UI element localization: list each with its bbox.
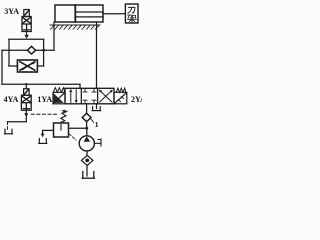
svg-text:1YA: 1YA <box>37 95 52 104</box>
svg-text:2YA: 2YA <box>131 95 142 104</box>
svg-text:4YA: 4YA <box>4 95 19 104</box>
svg-text:1: 1 <box>95 120 99 129</box>
svg-text:3YA: 3YA <box>4 7 19 16</box>
